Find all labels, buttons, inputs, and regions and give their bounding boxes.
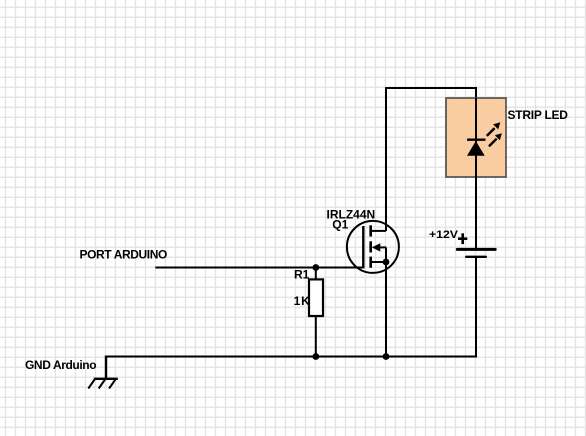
node: source-body junction [383, 259, 390, 266]
wire: source down to ground rail [385, 262, 387, 357]
svg-text:R1: R1 [294, 268, 310, 282]
svg-text:PORT ARDUINO: PORT ARDUINO [80, 248, 167, 262]
wire: ground rail [106, 356, 477, 358]
node: R1 bottom junction [312, 353, 319, 360]
ground symbol [88, 356, 118, 389]
wire: PORT ARDUINO to gate of Q1 [155, 267, 363, 269]
wire: drain up and over to strip led [386, 88, 476, 231]
resistor R1 [309, 268, 323, 357]
wire: battery minus down to ground rail [475, 258, 477, 357]
svg-text:+12V: +12V [429, 229, 459, 241]
svg-text:STRIP LED: STRIP LED [508, 108, 569, 122]
battery +12V [457, 233, 495, 256]
strip led module [446, 98, 506, 249]
svg-text:GND Arduino: GND Arduino [25, 358, 96, 372]
node: R1 top junction [312, 264, 319, 271]
svg-text:Q1: Q1 [332, 218, 348, 232]
transistor Q1 IRLZ44N (N-MOSFET) [347, 221, 399, 273]
node: source bottom junction [383, 353, 390, 360]
